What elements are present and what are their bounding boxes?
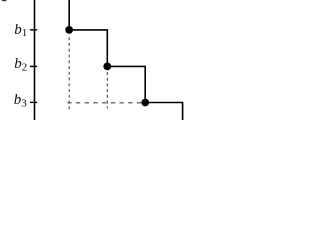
dashed dropline from dot 2 xyxy=(106,72,108,108)
tick b1 xyxy=(30,29,37,31)
step curve (wire) xyxy=(69,0,182,120)
svg-text:b3: b3 xyxy=(14,92,28,110)
tick b3 xyxy=(30,101,37,103)
tick b2 xyxy=(30,65,37,67)
node dot 1 xyxy=(65,26,73,34)
cropped label fragment top-left xyxy=(2,0,7,1)
svg-text:b1: b1 xyxy=(14,22,27,39)
dashed dropline from dot 1 xyxy=(68,37,70,112)
node dot 2 xyxy=(103,63,111,71)
axis (vertical) xyxy=(34,0,36,120)
node dot 3 xyxy=(141,99,149,107)
svg-text:b2: b2 xyxy=(14,56,27,73)
dashed level line b3 xyxy=(67,102,141,104)
